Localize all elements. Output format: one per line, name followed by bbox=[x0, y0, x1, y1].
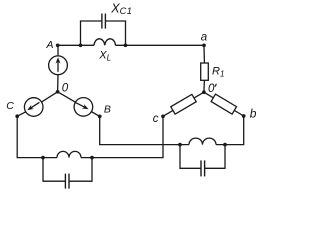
junction right tank right bbox=[223, 143, 227, 147]
svg-text:c: c bbox=[153, 113, 159, 125]
capacitor loop of left tank (right side) bbox=[69, 158, 92, 182]
svg-text:a: a bbox=[201, 31, 207, 43]
wire node A down to source A bbox=[57, 45, 59, 56]
capacitor of left tank bbox=[64, 174, 66, 189]
svg-text:C: C bbox=[6, 100, 14, 112]
capacitor loop of right tank (left side) bbox=[180, 145, 201, 169]
node a bbox=[202, 43, 206, 47]
svg-text:A: A bbox=[46, 39, 54, 51]
svg-text:B: B bbox=[104, 104, 111, 116]
node 0 (source neutral) bbox=[56, 90, 60, 94]
junction XC1 branch right bbox=[124, 43, 128, 47]
junction left tank left bbox=[41, 156, 45, 160]
svg-text:0: 0 bbox=[62, 82, 69, 95]
inductor in C line (left tank) bbox=[57, 151, 81, 157]
wire node 0 to source C bbox=[41, 92, 57, 102]
wire terminal B down and right (phase B line) bbox=[100, 116, 189, 144]
capacitor loop of left tank (left side) bbox=[43, 158, 65, 182]
wire R1 to node 0' bbox=[203, 80, 206, 92]
wire capacitor branch left riser bbox=[81, 21, 102, 45]
wire XL to node a (top line right part) bbox=[116, 44, 205, 46]
load resistor in phase c bbox=[171, 94, 196, 114]
svg-text:0: 0 bbox=[208, 82, 215, 95]
inductor XL bbox=[94, 39, 116, 46]
wire source A to node 0 bbox=[57, 75, 59, 92]
wire source C to terminal C bbox=[17, 112, 26, 117]
inductor in B line (right tank) bbox=[189, 138, 216, 145]
resistor R1 bbox=[201, 63, 209, 80]
junction right tank left bbox=[178, 143, 182, 147]
node C bbox=[15, 114, 19, 118]
wire node 0' to node c diagonal bbox=[163, 92, 204, 116]
source G_B (phase B) bbox=[74, 98, 93, 117]
wire terminal C down and right (phase C line) bbox=[17, 116, 57, 157]
wire left tank to node c riser bbox=[81, 116, 163, 157]
wire node 0' to node b diagonal bbox=[204, 92, 244, 116]
wire right tank to node b riser bbox=[216, 116, 244, 145]
capacitor XC1 bbox=[101, 14, 103, 29]
wire A to XL (top line left part) bbox=[58, 44, 94, 46]
svg-text:b: b bbox=[250, 106, 257, 120]
label 0 prime tick bbox=[215, 84, 216, 87]
capacitor of right tank bbox=[200, 160, 202, 176]
wire node 0 to source B bbox=[58, 92, 76, 103]
junction left tank right bbox=[90, 156, 94, 160]
node 0' (load neutral) bbox=[202, 90, 206, 94]
capacitor loop of right tank (right side) bbox=[205, 145, 225, 169]
node A bbox=[56, 43, 60, 47]
node b bbox=[242, 114, 246, 118]
wire capacitor branch right riser bbox=[105, 21, 125, 45]
wire source B to terminal B bbox=[91, 112, 100, 117]
junction XC1 branch left bbox=[79, 43, 83, 47]
wire node a down to R1 bbox=[203, 45, 205, 63]
node B bbox=[98, 115, 102, 119]
load resistor in phase b bbox=[211, 94, 236, 114]
node c bbox=[161, 114, 165, 118]
source G_A (phase A) bbox=[49, 56, 68, 75]
source G_C (phase C) bbox=[24, 98, 43, 117]
